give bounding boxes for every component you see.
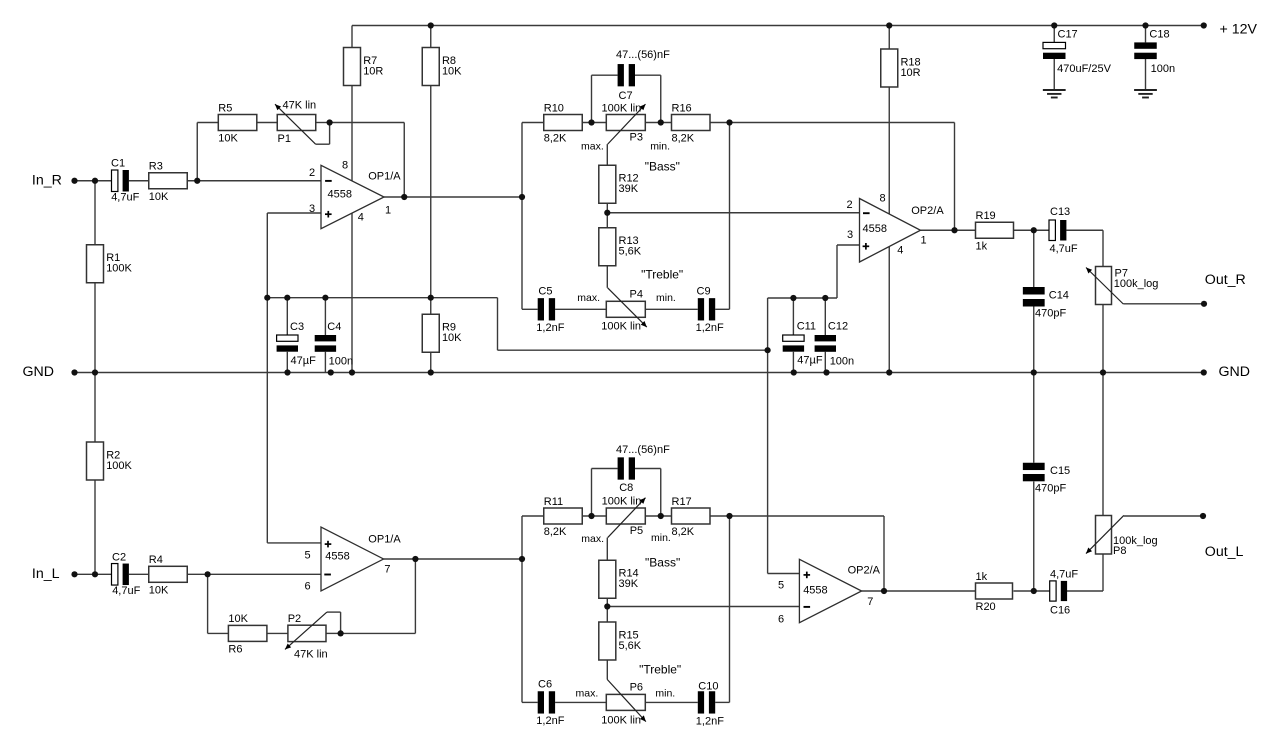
svg-text:"Bass": "Bass" <box>645 160 680 174</box>
svg-text:C2: C2 <box>112 551 126 563</box>
svg-text:C1: C1 <box>111 158 125 170</box>
svg-text:P6: P6 <box>630 682 643 694</box>
svg-text:P4: P4 <box>630 288 643 300</box>
svg-text:3: 3 <box>309 203 315 215</box>
svg-text:47K lin: 47K lin <box>283 99 317 111</box>
svg-text:100K lin: 100K lin <box>601 715 641 727</box>
svg-text:C8: C8 <box>619 482 633 494</box>
svg-text:max.: max. <box>577 292 600 304</box>
svg-text:C18: C18 <box>1149 29 1169 41</box>
svg-text:8: 8 <box>342 160 348 172</box>
svg-text:"Bass": "Bass" <box>645 556 680 570</box>
svg-text:47...(56)nF: 47...(56)nF <box>616 444 670 456</box>
svg-text:P5: P5 <box>630 525 643 537</box>
svg-text:1: 1 <box>385 204 391 216</box>
svg-text:47µF: 47µF <box>797 355 823 367</box>
svg-text:10K: 10K <box>218 133 238 145</box>
svg-text:OP1/A: OP1/A <box>368 534 401 546</box>
svg-text:C11: C11 <box>797 320 816 332</box>
svg-text:100K: 100K <box>106 263 132 275</box>
svg-text:5,6K: 5,6K <box>619 246 642 258</box>
svg-text:47...(56)nF: 47...(56)nF <box>616 49 670 61</box>
svg-text:R6: R6 <box>228 644 242 656</box>
svg-text:min.: min. <box>651 532 671 544</box>
svg-text:Out_R: Out_R <box>1205 272 1246 288</box>
svg-text:470uF/25V: 470uF/25V <box>1057 63 1111 75</box>
svg-text:39K: 39K <box>619 578 639 590</box>
svg-text:C9: C9 <box>697 286 711 298</box>
svg-text:5,6K: 5,6K <box>619 640 642 652</box>
svg-text:C6: C6 <box>538 679 552 691</box>
svg-text:R10: R10 <box>544 102 564 114</box>
svg-text:47K lin: 47K lin <box>294 649 328 661</box>
svg-text:P3: P3 <box>630 132 643 144</box>
svg-text:100K lin: 100K lin <box>602 495 642 507</box>
svg-text:C13: C13 <box>1050 206 1070 218</box>
svg-text:4: 4 <box>358 212 364 224</box>
svg-text:In_R: In_R <box>32 172 62 188</box>
svg-text:C10: C10 <box>698 681 718 693</box>
svg-text:min.: min. <box>650 141 670 153</box>
svg-text:1k: 1k <box>976 571 988 583</box>
svg-text:C16: C16 <box>1050 605 1070 617</box>
svg-text:10R: 10R <box>363 65 383 77</box>
svg-text:8,2K: 8,2K <box>672 526 695 538</box>
svg-text:8,2K: 8,2K <box>544 133 567 145</box>
svg-text:+ 12V: + 12V <box>1220 21 1258 37</box>
svg-text:C5: C5 <box>538 286 552 298</box>
svg-text:1,2nF: 1,2nF <box>696 716 724 728</box>
svg-text:4,7uF: 4,7uF <box>112 585 140 597</box>
svg-text:R16: R16 <box>672 102 692 114</box>
svg-text:100k_log: 100k_log <box>1113 535 1158 547</box>
svg-text:max.: max. <box>581 141 604 153</box>
svg-text:In_L: In_L <box>32 566 60 582</box>
svg-text:5: 5 <box>305 550 311 562</box>
svg-text:min.: min. <box>656 292 676 304</box>
svg-text:1k: 1k <box>976 240 988 252</box>
svg-text:10R: 10R <box>900 67 920 79</box>
svg-text:10K: 10K <box>149 585 169 597</box>
svg-text:100n: 100n <box>830 355 854 367</box>
svg-text:max.: max. <box>576 688 599 700</box>
svg-text:C15: C15 <box>1050 465 1070 477</box>
svg-text:8,2K: 8,2K <box>672 133 695 145</box>
svg-text:100n: 100n <box>329 355 353 367</box>
svg-text:2: 2 <box>309 167 315 179</box>
svg-text:2: 2 <box>847 199 853 211</box>
svg-text:C14: C14 <box>1049 289 1069 301</box>
svg-text:"Treble": "Treble" <box>639 663 681 677</box>
svg-text:OP2/A: OP2/A <box>911 205 944 217</box>
svg-text:8: 8 <box>880 193 886 205</box>
svg-text:R4: R4 <box>149 554 163 566</box>
svg-text:P1: P1 <box>278 133 291 145</box>
svg-text:4558: 4558 <box>328 189 352 201</box>
svg-text:4558: 4558 <box>803 585 827 597</box>
svg-text:100K lin: 100K lin <box>601 320 641 332</box>
svg-text:C7: C7 <box>619 90 633 102</box>
svg-text:4558: 4558 <box>863 223 887 235</box>
svg-text:470pF: 470pF <box>1035 483 1066 495</box>
svg-text:39K: 39K <box>619 183 639 195</box>
svg-text:P2: P2 <box>288 613 301 625</box>
svg-text:R3: R3 <box>149 161 163 173</box>
svg-text:"Treble": "Treble" <box>641 268 683 282</box>
svg-text:GND: GND <box>23 364 55 380</box>
svg-text:R20: R20 <box>976 601 996 613</box>
svg-text:7: 7 <box>867 596 873 608</box>
svg-text:100n: 100n <box>1151 63 1175 75</box>
svg-text:OP2/A: OP2/A <box>848 565 881 577</box>
svg-text:1,2nF: 1,2nF <box>696 322 724 334</box>
svg-text:6: 6 <box>778 614 784 626</box>
svg-text:3: 3 <box>847 229 853 241</box>
svg-text:R11: R11 <box>544 496 563 508</box>
svg-text:1,2nF: 1,2nF <box>536 322 564 334</box>
svg-text:R17: R17 <box>672 496 692 508</box>
svg-text:4,7uF: 4,7uF <box>1050 243 1078 255</box>
svg-text:100k_log: 100k_log <box>1114 278 1159 290</box>
svg-text:100K: 100K <box>106 460 132 472</box>
svg-text:7: 7 <box>384 564 390 576</box>
svg-text:OP1/A: OP1/A <box>368 170 401 182</box>
svg-text:1,2nF: 1,2nF <box>536 715 564 727</box>
svg-text:4,7uF: 4,7uF <box>1050 569 1078 581</box>
svg-text:C12: C12 <box>828 320 848 332</box>
svg-text:4558: 4558 <box>325 551 349 563</box>
svg-text:C3: C3 <box>290 321 304 333</box>
svg-text:R19: R19 <box>976 210 996 222</box>
svg-text:100K lin: 100K lin <box>602 103 642 115</box>
svg-text:Out_L: Out_L <box>1205 544 1244 560</box>
svg-text:6: 6 <box>305 581 311 593</box>
svg-text:8,2K: 8,2K <box>544 526 567 538</box>
svg-text:max.: max. <box>581 533 604 545</box>
svg-text:10K: 10K <box>228 613 248 625</box>
svg-text:10K: 10K <box>442 65 462 77</box>
svg-text:R5: R5 <box>218 102 232 114</box>
svg-text:GND: GND <box>1219 364 1251 380</box>
svg-text:5: 5 <box>778 580 784 592</box>
svg-text:10K: 10K <box>442 332 462 344</box>
svg-text:4,7uF: 4,7uF <box>111 192 139 204</box>
svg-text:min.: min. <box>655 688 675 700</box>
svg-text:10K: 10K <box>149 191 169 203</box>
svg-text:C4: C4 <box>327 321 341 333</box>
svg-text:47µF: 47µF <box>291 355 317 367</box>
svg-text:4: 4 <box>897 245 903 257</box>
svg-text:470pF: 470pF <box>1035 308 1066 320</box>
svg-text:C17: C17 <box>1058 29 1078 41</box>
svg-text:1: 1 <box>921 235 927 247</box>
